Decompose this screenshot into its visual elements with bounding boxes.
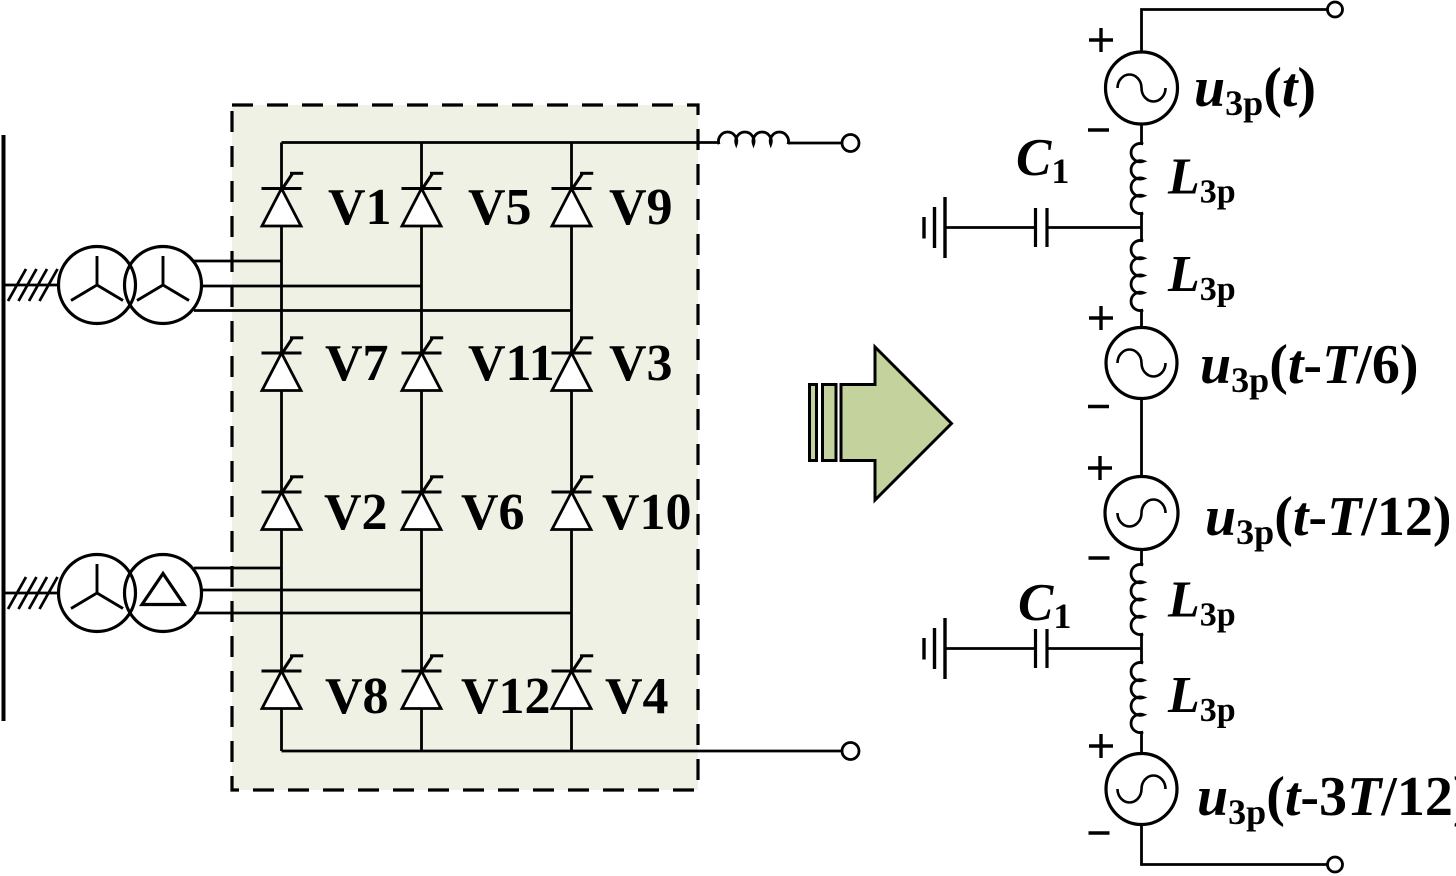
- thyristor V3: [552, 338, 594, 391]
- terminal top-right: [1328, 2, 1343, 17]
- equivalence arrow bar 2: [823, 385, 837, 461]
- svg-text:u3p(t-T/6): u3p(t-T/6): [1200, 334, 1419, 400]
- wye symbol T2 primary: [71, 564, 123, 609]
- three-phase slash marks: [8, 269, 26, 301]
- svg-text:V1: V1: [328, 179, 392, 236]
- svg-text:u3p(t): u3p(t): [1194, 57, 1316, 123]
- wire capacitor to ground: [945, 647, 1036, 650]
- svg-text:L3p: L3p: [1167, 667, 1236, 729]
- thyristor V5: [402, 173, 444, 226]
- svg-text:V2: V2: [324, 484, 388, 541]
- thyristor V7: [262, 338, 304, 391]
- svg-text:u3p(t-T/12): u3p(t-T/12): [1205, 486, 1452, 552]
- smoothing inductor (top DC output): [718, 132, 788, 144]
- thyristor V11: [402, 338, 444, 391]
- capacitor C1 #2: [1034, 629, 1037, 668]
- svg-text:V6: V6: [461, 484, 525, 541]
- svg-text:V11: V11: [468, 335, 555, 392]
- svg-text:V10: V10: [602, 484, 692, 541]
- transformer T2 (wye-delta): [59, 555, 136, 632]
- wire T2 phase b: [202, 589, 422, 592]
- plus sign u3p(t): [1089, 28, 1113, 52]
- inductor L3p #1: [1131, 143, 1143, 213]
- svg-text:C1: C1: [1018, 574, 1071, 636]
- inductor L3p #2: [1131, 240, 1143, 310]
- wire bus tap: [4, 592, 60, 595]
- wire source2 to source3: [1140, 399, 1143, 478]
- wire L4 to source4: [1140, 732, 1143, 754]
- wire T2 phase a: [194, 567, 282, 570]
- wire source1 to L1: [1140, 124, 1143, 144]
- wire T1 phase c: [194, 309, 572, 312]
- wire T1 phase a: [194, 260, 282, 263]
- thyristor V2: [262, 477, 304, 530]
- svg-text:L3p: L3p: [1167, 572, 1236, 634]
- three-phase slash marks: [8, 577, 26, 609]
- plus sign u3p(t-3T/12): [1089, 734, 1113, 758]
- thyristor V1: [262, 173, 304, 226]
- thyristor V12: [402, 656, 444, 709]
- svg-text:V12: V12: [461, 668, 551, 725]
- ground symbol: [924, 197, 945, 258]
- wire L2 to source2: [1140, 310, 1143, 328]
- bus bar (AC grid): [2, 135, 6, 721]
- minus sign u3p(t-T/6): [1088, 405, 1109, 409]
- equivalence arrow body: [841, 347, 952, 500]
- svg-text:V4: V4: [605, 668, 669, 725]
- terminal bottom-right: [1328, 857, 1343, 872]
- terminal top-left: [842, 135, 859, 152]
- inductor L3p #3: [1131, 564, 1143, 634]
- thyristor V4: [552, 656, 594, 709]
- wire T2 phase c: [194, 612, 572, 615]
- wire valve column 2: [420, 143, 423, 752]
- wire node to capacitor: [1047, 226, 1142, 229]
- svg-text:V9: V9: [609, 179, 673, 236]
- minus sign u3p(t): [1088, 128, 1109, 132]
- svg-text:u3p(t-3T/12): u3p(t-3T/12): [1197, 766, 1456, 832]
- ground symbol: [924, 618, 945, 679]
- terminal bottom-left: [842, 743, 859, 760]
- wire top right output: [1142, 10, 1328, 53]
- wire bus tap: [4, 284, 60, 287]
- minus sign u3p(t-T/12): [1089, 556, 1110, 560]
- converter valve-bridge box (dashed): [232, 105, 698, 790]
- thyristor V8: [262, 656, 304, 709]
- svg-text:L3p: L3p: [1167, 246, 1236, 308]
- wire source3 to L3: [1140, 550, 1143, 566]
- capacitor C1 #1: [1034, 208, 1037, 247]
- svg-text:V7: V7: [325, 335, 389, 392]
- svg-text:V8: V8: [325, 668, 389, 725]
- thyristor V6: [402, 477, 444, 530]
- wire valve column 3: [570, 143, 573, 752]
- AC source u3p(t-3T/12): [1106, 754, 1177, 825]
- svg-text:V5: V5: [468, 179, 532, 236]
- wire top DC rail: [282, 141, 720, 144]
- plus sign u3p(t-T/6): [1089, 306, 1113, 330]
- AC source u3p(t-T/12): [1105, 477, 1178, 550]
- wire L3 to L4 through node2: [1140, 634, 1143, 663]
- wire capacitor to ground: [945, 226, 1036, 229]
- plus sign u3p(t-T/12): [1088, 456, 1112, 480]
- wye symbol T1 secondary: [137, 256, 189, 301]
- minus sign u3p(t-3T/12): [1089, 831, 1110, 835]
- wire L1 to node1: [1140, 213, 1143, 241]
- equivalence arrow bar 1: [810, 385, 817, 461]
- wire to top-left terminal: [788, 142, 843, 145]
- AC source u3p(t): [1106, 52, 1178, 124]
- thyristor V9: [552, 173, 594, 226]
- thyristor V10: [552, 477, 594, 530]
- inductor L3p #4: [1131, 662, 1143, 732]
- wire bottom DC rail: [282, 750, 843, 753]
- wire bottom right output: [1142, 825, 1328, 865]
- wire valve column 1: [280, 143, 283, 752]
- svg-text:L3p: L3p: [1167, 149, 1236, 211]
- wire node to capacitor: [1047, 647, 1142, 650]
- delta symbol T2 secondary: [142, 574, 184, 605]
- svg-text:C1: C1: [1016, 129, 1069, 191]
- wye symbol T1 primary: [71, 256, 123, 301]
- transformer T1 (wye-wye): [59, 247, 136, 324]
- wire T1 phase b: [202, 285, 422, 288]
- svg-text:V3: V3: [609, 335, 673, 392]
- AC source u3p(t-T/6): [1106, 328, 1177, 399]
